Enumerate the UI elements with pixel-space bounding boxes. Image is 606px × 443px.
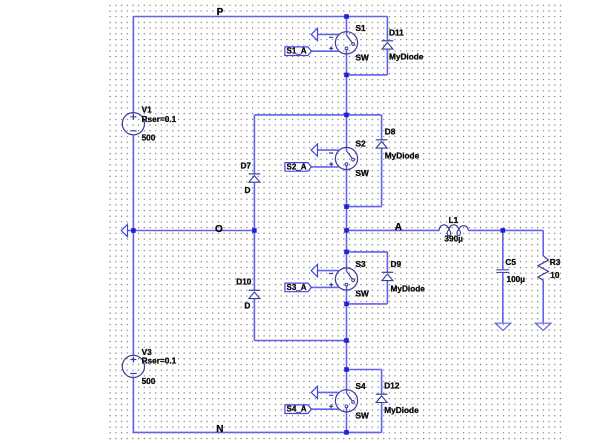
svg-text:S3_A: S3_A <box>287 283 307 292</box>
svg-text:D: D <box>245 186 251 195</box>
svg-text:SW: SW <box>356 290 370 299</box>
svg-text:SW: SW <box>356 169 370 178</box>
svg-text:V3: V3 <box>142 348 153 357</box>
svg-text:MyDiode: MyDiode <box>385 152 420 161</box>
svg-text:S1: S1 <box>356 24 367 33</box>
svg-text:MyDiode: MyDiode <box>384 406 419 415</box>
svg-text:MyDiode: MyDiode <box>391 284 426 293</box>
svg-text:S2: S2 <box>356 140 367 149</box>
svg-text:L1: L1 <box>449 216 459 225</box>
svg-text:S4_A: S4_A <box>287 405 307 414</box>
svg-text:Rser=0.1: Rser=0.1 <box>142 357 177 366</box>
svg-text:100µ: 100µ <box>507 275 526 284</box>
svg-text:Rser=0.1: Rser=0.1 <box>142 115 177 124</box>
svg-text:390µ: 390µ <box>444 235 463 244</box>
svg-text:S1_A: S1_A <box>287 47 307 56</box>
svg-text:C5: C5 <box>505 258 516 267</box>
svg-text:D7: D7 <box>240 162 251 171</box>
svg-text:S2_A: S2_A <box>287 162 307 171</box>
svg-text:500: 500 <box>142 133 156 142</box>
svg-text:SW: SW <box>356 53 370 62</box>
svg-text:V1: V1 <box>142 105 153 114</box>
svg-text:10: 10 <box>550 271 560 280</box>
svg-text:P: P <box>217 7 224 18</box>
svg-text:SW: SW <box>356 411 370 420</box>
svg-text:O: O <box>215 224 223 235</box>
svg-text:D10: D10 <box>236 277 252 286</box>
svg-text:MyDiode: MyDiode <box>389 53 424 62</box>
svg-text:D11: D11 <box>389 28 404 37</box>
svg-text:S3: S3 <box>356 260 367 269</box>
svg-text:500: 500 <box>142 377 156 386</box>
svg-text:D8: D8 <box>385 127 396 136</box>
svg-text:D12: D12 <box>384 382 400 391</box>
svg-text:A: A <box>395 222 402 233</box>
svg-text:R3: R3 <box>550 258 561 267</box>
svg-text:S4: S4 <box>356 382 367 391</box>
svg-text:N: N <box>216 424 223 435</box>
svg-text:D9: D9 <box>391 260 402 269</box>
svg-text:D: D <box>244 301 250 310</box>
